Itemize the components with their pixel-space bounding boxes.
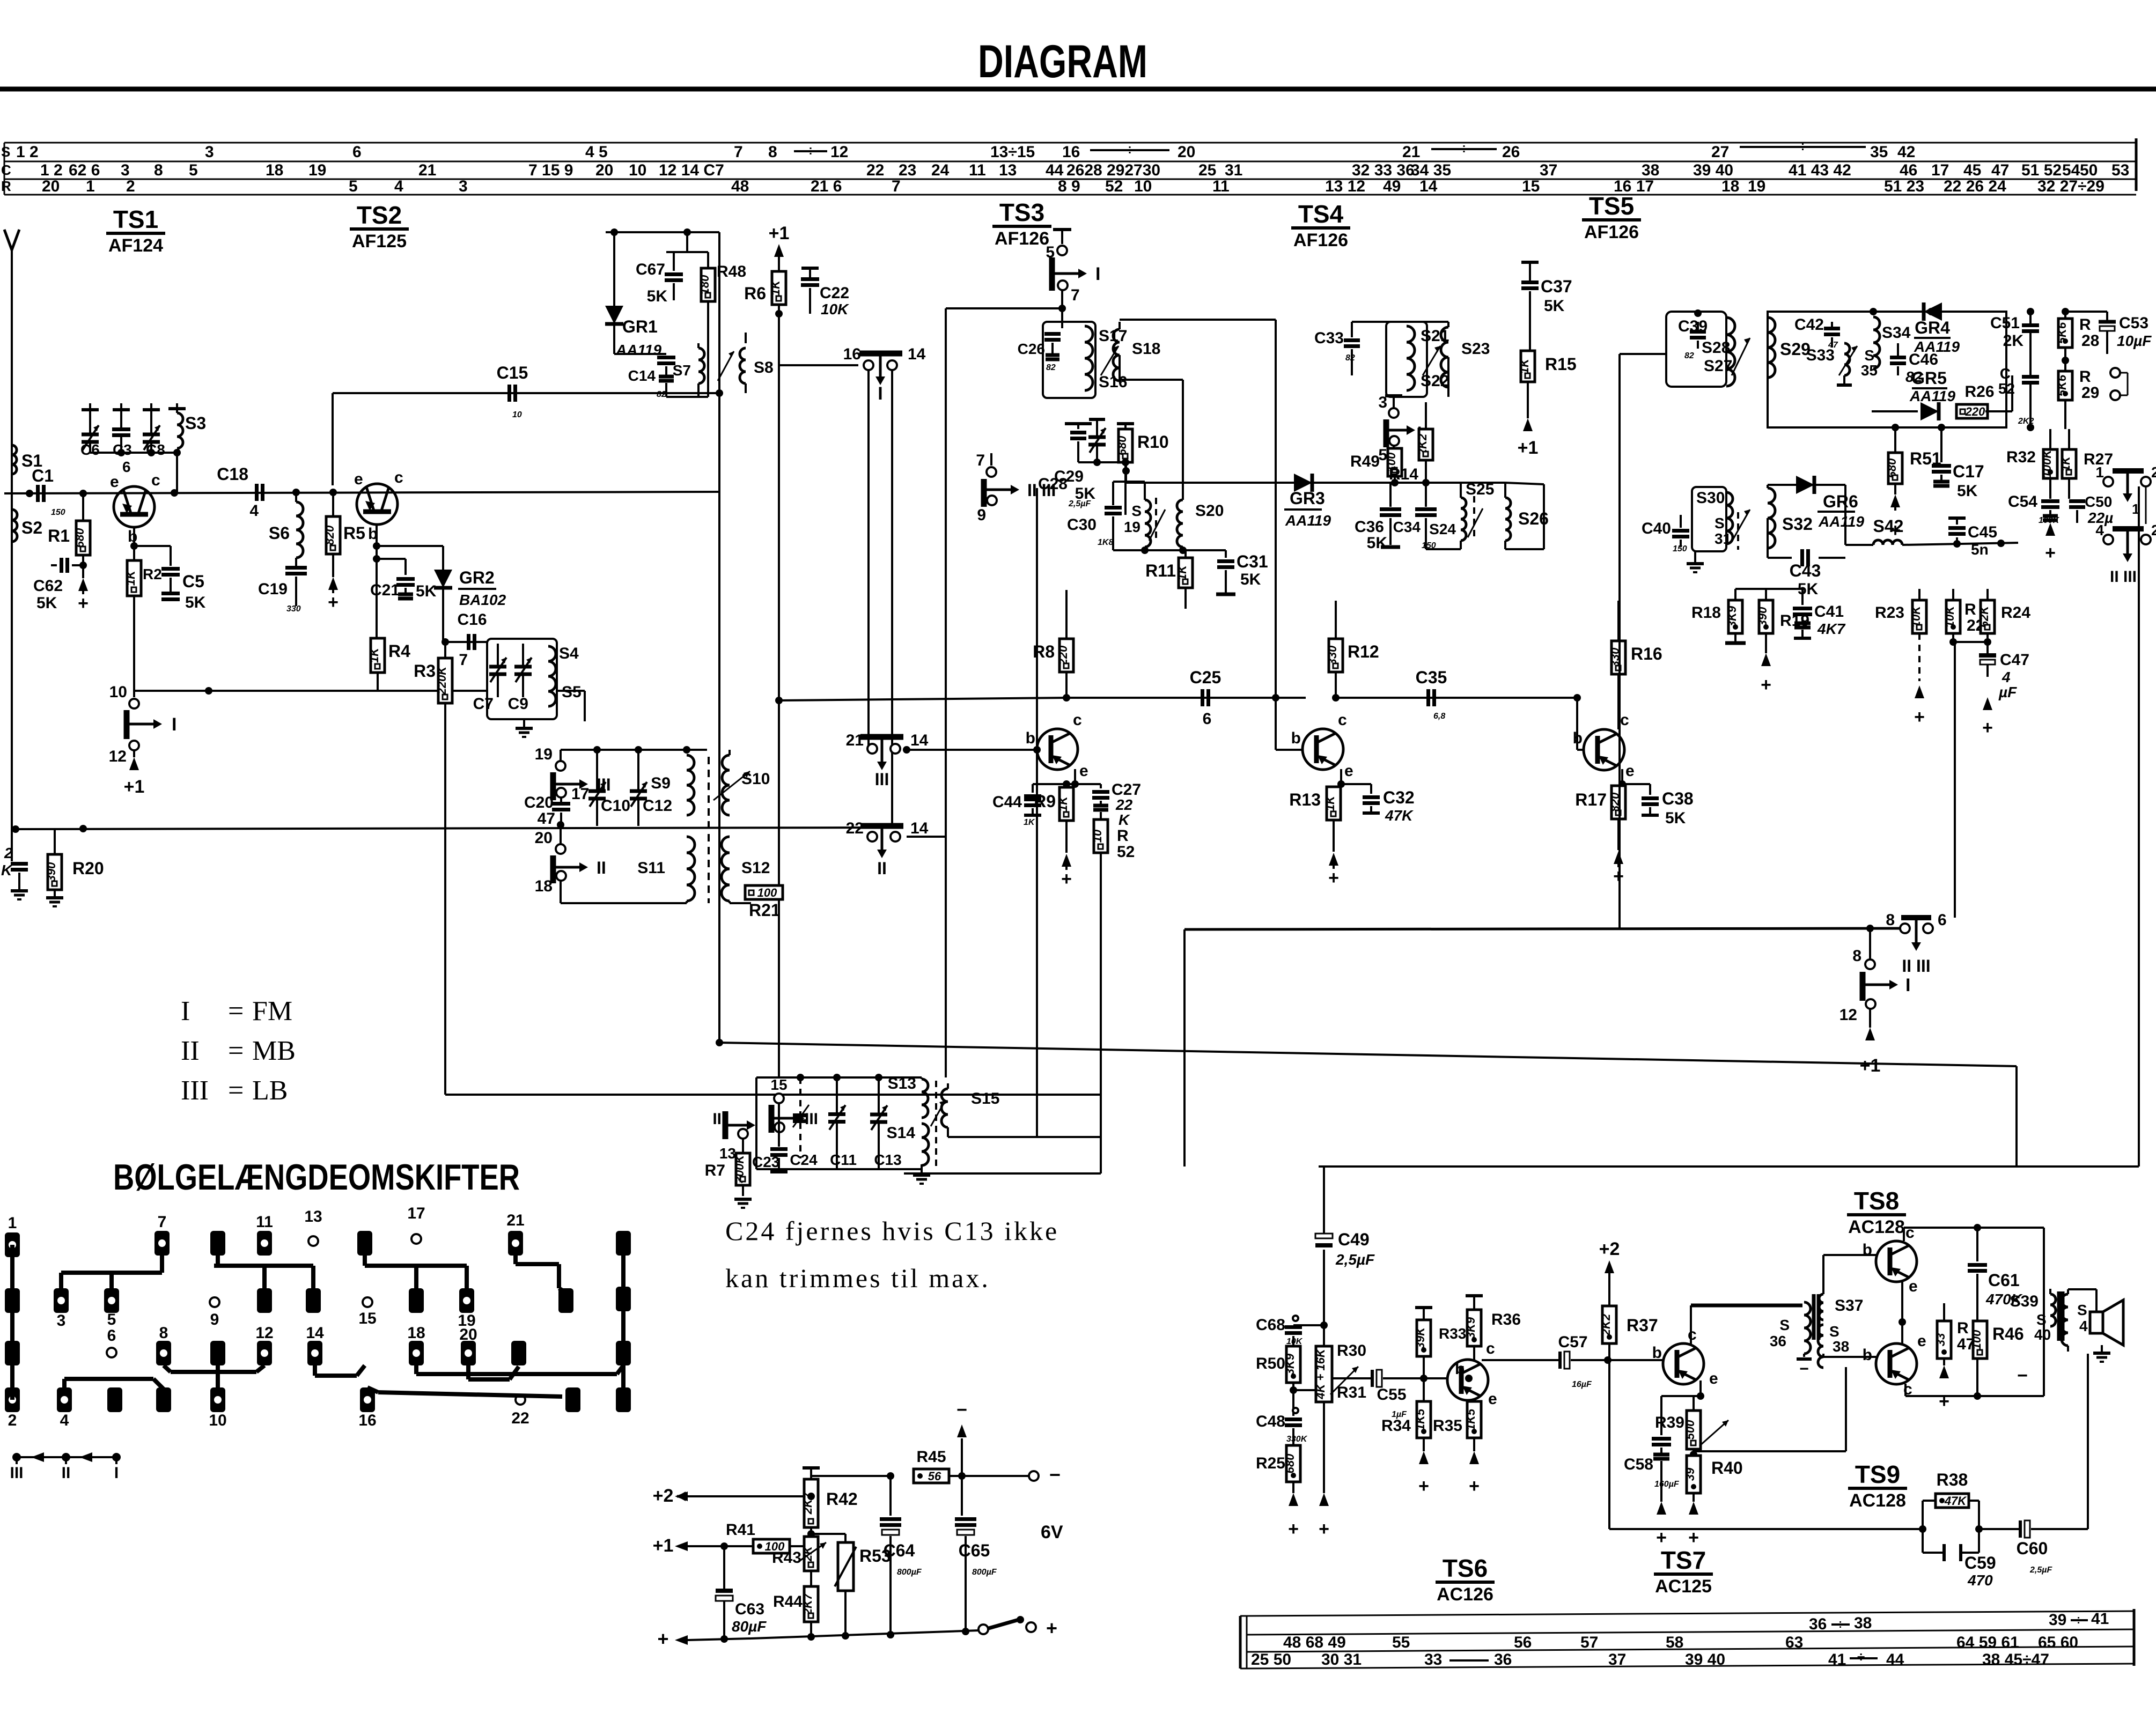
svg-text:12 14 C7: 12 14 C7 [659,161,724,179]
svg-text:82: 82 [1345,353,1355,363]
svg-text:2K: 2K [2003,332,2024,350]
svg-text:AA119: AA119 [615,342,662,358]
svg-text:21: 21 [1402,143,1420,161]
svg-text:C9: C9 [508,695,528,713]
svg-text:52: 52 [1998,380,2015,397]
svg-text:82: 82 [1046,363,1056,372]
svg-text:3: 3 [121,161,130,179]
svg-text:21: 21 [506,1212,524,1229]
svg-text:S: S [2036,1311,2047,1328]
svg-text:+2: +2 [1599,1239,1620,1259]
svg-text:7: 7 [976,452,985,469]
svg-text:II: II [62,1464,71,1482]
svg-text:3: 3 [57,1312,66,1330]
svg-text:C34: C34 [1393,519,1421,535]
svg-text:+: + [1688,1527,1699,1548]
svg-text:C30: C30 [1067,516,1097,534]
svg-text:54: 54 [2062,161,2080,179]
svg-text:100: 100 [757,886,777,899]
svg-text:63: 63 [1785,1634,1803,1651]
svg-text:+: + [1319,1519,1329,1539]
svg-text:1 2: 1 2 [40,161,63,179]
svg-text:S2: S2 [21,518,42,537]
svg-text:S: S [1829,1323,1839,1340]
svg-text:R50: R50 [1256,1355,1285,1372]
svg-text:R2: R2 [143,566,162,582]
svg-text:C41: C41 [1814,603,1844,621]
svg-text:GR5: GR5 [1911,368,1947,388]
svg-text:−: − [2017,1365,2028,1386]
svg-text:27: 27 [1711,143,1729,161]
svg-text:C59: C59 [1964,1553,1996,1572]
svg-text:51 52: 51 52 [2021,161,2062,179]
svg-text:9: 9 [977,506,986,524]
svg-text:S: S [1864,347,1874,364]
svg-text:+: + [1418,1476,1429,1496]
svg-text:S3: S3 [185,414,206,433]
svg-text:14: 14 [910,732,929,749]
svg-text:47K: 47K [1385,807,1414,824]
svg-text:III: III [10,1464,23,1482]
svg-text:470: 470 [1967,1572,1993,1589]
svg-text:R37: R37 [1627,1316,1658,1335]
svg-text:10: 10 [209,1412,226,1429]
svg-text:39: 39 [1683,1467,1697,1481]
svg-text:S30: S30 [1696,489,1725,507]
svg-text:R43: R43 [772,1549,801,1567]
svg-text:R6: R6 [744,284,766,303]
svg-text:16µF: 16µF [1572,1380,1592,1389]
svg-text:26: 26 [1502,143,1520,161]
svg-text:÷: ÷ [1799,138,1806,154]
svg-text:R40: R40 [1711,1458,1743,1478]
svg-text:18: 18 [407,1324,425,1342]
svg-text:R: R [1957,1319,1969,1337]
svg-text:S8: S8 [754,359,774,376]
svg-text:MB: MB [252,1036,296,1066]
svg-text:e: e [1079,762,1088,780]
svg-text:C32: C32 [1383,788,1415,807]
svg-text:50: 50 [2080,161,2098,179]
svg-text:C25: C25 [1190,668,1222,687]
svg-text:R46: R46 [1992,1324,2024,1343]
svg-text:18: 18 [266,161,283,179]
svg-text:4: 4 [60,1412,69,1429]
svg-text:S39: S39 [2010,1293,2039,1310]
svg-text:10: 10 [1134,178,1152,195]
svg-text:III: III [875,770,889,789]
svg-text:II: II [877,859,887,878]
svg-text:S: S [1715,515,1725,531]
svg-text:b: b [1652,1344,1662,1362]
svg-text:R31: R31 [1337,1384,1366,1401]
svg-text:e: e [354,470,363,488]
svg-text:C17: C17 [1953,462,1984,481]
svg-text:TS6: TS6 [1443,1554,1488,1582]
svg-text:5K: 5K [1240,571,1261,588]
svg-text:GR2: GR2 [459,568,495,587]
svg-text:S18: S18 [1132,340,1160,358]
svg-text:180: 180 [698,275,711,294]
svg-text:b: b [1291,729,1301,747]
svg-text:+: + [1288,1519,1299,1539]
svg-text:e: e [1625,762,1635,780]
svg-text:55: 55 [1392,1634,1410,1651]
svg-text:36: 36 [1494,1651,1512,1668]
svg-text:6: 6 [1203,710,1212,728]
svg-text:39 40: 39 40 [1685,1651,1725,1668]
svg-text:S4: S4 [559,645,579,662]
svg-text:+: + [1982,718,1993,738]
svg-text:R: R [1,178,11,194]
svg-text:4: 4 [249,502,259,520]
svg-text:19: 19 [535,745,553,763]
svg-text:C40: C40 [1642,520,1671,537]
svg-text:1K: 1K [1024,818,1035,827]
svg-text:S13: S13 [888,1075,916,1092]
svg-text:12: 12 [1839,1006,1857,1024]
svg-text:3: 3 [459,178,468,195]
svg-text:+: + [2045,543,2056,563]
svg-text:29: 29 [2081,384,2099,402]
svg-text:C44: C44 [992,793,1022,811]
svg-text:c: c [1620,711,1629,729]
svg-text:7 15 9: 7 15 9 [528,161,573,179]
svg-text:R: R [1964,601,1976,618]
svg-text:20: 20 [535,829,553,847]
svg-text:c: c [1486,1340,1495,1357]
svg-text:+: + [1761,675,1771,695]
svg-text:37: 37 [1540,161,1557,179]
svg-text:13: 13 [304,1208,322,1225]
svg-text:2: 2 [2151,522,2156,538]
svg-text:11: 11 [256,1213,273,1231]
svg-text:S: S [2077,1302,2087,1318]
svg-text:R35: R35 [1433,1417,1462,1435]
svg-text:kan trimmes til max.: kan trimmes til max. [725,1263,990,1293]
svg-text:III: III [181,1075,209,1106]
svg-text:AA119: AA119 [1909,388,1956,404]
svg-text:C63: C63 [735,1600,764,1618]
svg-text:C43: C43 [1790,561,1821,580]
svg-text:10: 10 [512,410,522,419]
svg-text:5: 5 [189,161,198,179]
svg-text:2: 2 [8,1412,17,1429]
svg-text:R39: R39 [1655,1414,1684,1431]
svg-text:4: 4 [2095,522,2104,538]
svg-text:e: e [1488,1390,1497,1408]
svg-text:C45: C45 [1968,523,1997,541]
svg-text:5K: 5K [36,594,57,612]
svg-text:5K: 5K [1544,297,1565,315]
svg-text:12: 12 [830,143,848,161]
svg-text:R21: R21 [749,900,781,920]
svg-text:1 2: 1 2 [16,143,39,161]
svg-text:C49: C49 [1338,1230,1370,1249]
svg-text:C3: C3 [113,441,132,458]
svg-text:C19: C19 [258,580,288,598]
svg-text:47K: 47K [1944,1494,1967,1508]
svg-text:C33: C33 [1314,329,1344,347]
svg-text:C5: C5 [182,572,204,591]
svg-text:R12: R12 [1348,642,1379,661]
svg-text:53: 53 [2111,161,2129,179]
svg-text:57: 57 [1580,1634,1598,1651]
svg-text:+: + [1469,1476,1480,1496]
svg-text:5K: 5K [185,594,206,611]
svg-text:÷: ÷ [1857,1649,1865,1665]
svg-text:19: 19 [1124,519,1140,535]
svg-text:220: 220 [1965,405,1985,418]
svg-text:R49: R49 [1350,453,1380,470]
svg-text:2K2: 2K2 [1599,1313,1613,1336]
svg-text:AC128: AC128 [1849,1490,1906,1511]
svg-text:820: 820 [323,525,336,545]
svg-text:I: I [878,383,882,404]
svg-text:5n: 5n [1971,541,1989,558]
svg-text:+: + [1914,707,1925,727]
svg-text:5K: 5K [416,582,437,600]
svg-text:9: 9 [210,1311,219,1328]
svg-text:8: 8 [1886,911,1895,929]
svg-text:+2: +2 [653,1486,674,1506]
svg-text:II: II [712,1110,722,1128]
svg-text:GR1: GR1 [622,317,658,336]
svg-text:47: 47 [538,810,555,828]
svg-text:C14: C14 [628,367,656,384]
svg-text:S25: S25 [1466,481,1494,498]
svg-text:10: 10 [109,683,127,701]
svg-text:AF124: AF124 [108,235,163,256]
svg-text:C6: C6 [80,441,100,458]
svg-text:R11: R11 [1145,561,1176,580]
svg-text:C37: C37 [1541,277,1572,296]
svg-text:10K: 10K [1943,605,1956,627]
svg-text:I: I [172,714,176,735]
svg-text:41: 41 [2091,1610,2109,1628]
svg-text:GR3: GR3 [1290,489,1325,508]
svg-text:24: 24 [931,161,950,179]
svg-text:6,8: 6,8 [1433,712,1445,721]
svg-text:49: 49 [1383,178,1401,195]
svg-text:II: II [597,858,606,877]
svg-text:13÷15: 13÷15 [990,143,1035,161]
svg-text:150: 150 [1673,544,1687,553]
svg-text:17: 17 [407,1205,425,1222]
svg-text:1K5: 1K5 [1414,1408,1427,1430]
svg-text:C: C [2000,365,2011,382]
svg-text:36: 36 [1809,1615,1827,1633]
svg-text:12: 12 [255,1324,273,1342]
svg-text:R16: R16 [1631,644,1662,663]
svg-text:7: 7 [158,1213,167,1231]
svg-text:S7: S7 [673,362,691,379]
svg-text:8: 8 [768,143,777,161]
svg-text:=: = [228,996,244,1027]
svg-text:64 59 61: 64 59 61 [1956,1634,2019,1651]
svg-text:b: b [1863,1241,1872,1259]
svg-text:31: 31 [1225,161,1242,179]
svg-text:150: 150 [51,508,65,517]
svg-text:C55: C55 [1377,1386,1406,1404]
svg-text:S6: S6 [269,523,290,543]
svg-text:c: c [1073,711,1082,729]
svg-text:7: 7 [734,143,743,161]
svg-text:R38: R38 [1937,1470,1968,1489]
svg-text:160µF: 160µF [1654,1480,1680,1489]
svg-text:R15: R15 [1545,355,1577,374]
svg-text:19: 19 [1748,178,1765,195]
svg-text:5K: 5K [1075,485,1096,503]
svg-text:AC125: AC125 [1655,1576,1712,1597]
svg-text:I: I [114,1464,119,1482]
svg-text:C51: C51 [1990,314,2020,332]
svg-text:17: 17 [1931,161,1949,179]
svg-text:S37: S37 [1835,1297,1863,1315]
svg-text:20: 20 [459,1326,477,1343]
svg-text:R10: R10 [1137,432,1169,452]
svg-text:I: I [1905,975,1910,995]
svg-text:C16: C16 [457,611,487,629]
svg-text:+: + [1939,1391,1949,1412]
svg-text:÷: ÷ [1460,141,1468,157]
svg-text:C26: C26 [1018,341,1045,357]
svg-text:220K: 220K [435,666,448,696]
svg-text:19: 19 [308,161,326,179]
svg-text:=: = [228,1075,244,1106]
svg-text:32 33 36: 32 33 36 [1352,161,1415,179]
svg-text:39K: 39K [1414,1326,1427,1349]
svg-text:K: K [1,862,13,878]
svg-text:R23: R23 [1875,604,1904,622]
svg-text:C8: C8 [146,441,165,458]
svg-text:AC126: AC126 [1437,1584,1493,1605]
svg-text:330: 330 [1326,645,1339,665]
svg-text:c: c [1905,1224,1915,1242]
svg-text:56: 56 [1514,1634,1532,1651]
svg-text:15: 15 [770,1076,787,1093]
svg-text:C62: C62 [33,577,63,595]
svg-text:15: 15 [1522,178,1540,195]
svg-text:FM: FM [252,996,292,1027]
svg-text:R13: R13 [1289,790,1321,809]
svg-text:C64: C64 [884,1541,915,1560]
svg-text:16: 16 [843,345,861,363]
svg-text:38: 38 [1833,1338,1849,1355]
svg-text:35: 35 [1861,362,1878,379]
svg-text:2,5µF: 2,5µF [1335,1251,1375,1268]
svg-text:+: + [657,1628,668,1650]
svg-text:GR6: GR6 [1823,492,1858,511]
svg-text:AF125: AF125 [352,231,407,252]
svg-text:III: III [805,1110,818,1128]
svg-text:44: 44 [1886,1651,1904,1668]
svg-text:I: I [1095,264,1100,284]
svg-text:C60: C60 [2017,1539,2048,1558]
svg-text:1: 1 [86,178,95,195]
svg-text:1K: 1K [1175,564,1189,580]
svg-text:S: S [1779,1317,1790,1333]
svg-text:34 35: 34 35 [1411,161,1451,179]
svg-text:S9: S9 [651,774,671,792]
svg-text:33: 33 [1934,1333,1947,1346]
svg-text:C61: C61 [1988,1271,2020,1290]
svg-text:I: I [181,996,190,1027]
svg-text:R: R [2079,316,2091,334]
svg-text:52: 52 [1117,843,1135,861]
svg-text:2: 2 [2151,464,2156,481]
svg-text:II III: II III [2110,568,2137,586]
svg-text:S42: S42 [1873,516,1904,536]
svg-text:52: 52 [1105,178,1123,195]
svg-text:11: 11 [969,161,986,179]
svg-text:BØLGELÆNGDEOMSKIFTER: BØLGELÆNGDEOMSKIFTER [113,1157,520,1198]
svg-text:e: e [1344,762,1353,780]
svg-text:AC128: AC128 [1848,1217,1905,1237]
svg-text:TS2: TS2 [357,201,402,229]
svg-text:+: + [1656,1527,1667,1548]
svg-text:22: 22 [1115,796,1133,813]
svg-text:TS4: TS4 [1298,200,1344,228]
svg-text:−: − [1799,1360,1809,1378]
svg-text:48: 48 [731,178,749,195]
svg-text:R44: R44 [773,1593,803,1611]
svg-text:S14: S14 [887,1124,916,1142]
svg-text:C7: C7 [473,695,494,713]
svg-text:R33: R33 [1439,1325,1466,1342]
svg-text:1K: 1K [367,647,381,663]
svg-text:10µF: 10µF [2117,333,2152,349]
svg-text:TS7: TS7 [1661,1546,1706,1574]
svg-text:17: 17 [571,785,589,803]
svg-text:30 31: 30 31 [1321,1651,1362,1668]
svg-text:R30: R30 [1337,1342,1366,1360]
svg-text:C21: C21 [370,581,400,599]
svg-text:AA119: AA119 [1914,338,1960,355]
svg-text:18: 18 [1721,178,1739,195]
svg-text:39 40: 39 40 [1693,161,1733,179]
svg-text:c: c [394,469,403,486]
svg-text:c: c [1688,1326,1697,1343]
svg-text:R5: R5 [343,523,365,543]
svg-text:5K: 5K [647,287,668,305]
svg-text:39: 39 [2049,1611,2066,1629]
svg-text:AA119: AA119 [1818,513,1865,530]
svg-text:S12: S12 [741,859,770,877]
svg-text:C50: C50 [2085,493,2112,510]
svg-text:82: 82 [1684,351,1694,360]
svg-text:800µF: 800µF [972,1568,997,1577]
svg-text:TS9: TS9 [1855,1460,1900,1488]
svg-text:1: 1 [8,1214,17,1232]
svg-text:1K: 1K [124,570,137,586]
svg-text:1K: 1K [1056,795,1070,811]
svg-text:13: 13 [999,161,1017,179]
svg-text:10: 10 [629,161,646,179]
svg-text:R4: R4 [388,641,410,661]
svg-text:22: 22 [511,1409,529,1427]
svg-text:+: + [1061,869,1072,889]
svg-text:+: + [1046,1617,1057,1639]
svg-text:38: 38 [1854,1614,1872,1632]
svg-text:LB: LB [252,1075,288,1106]
svg-text:C48: C48 [1256,1413,1285,1430]
svg-text:44: 44 [1046,161,1064,179]
svg-text:58: 58 [1666,1634,1683,1651]
svg-text:C47: C47 [2000,651,2029,669]
svg-text:C29: C29 [1054,468,1084,485]
svg-text:5K: 5K [1665,809,1686,827]
